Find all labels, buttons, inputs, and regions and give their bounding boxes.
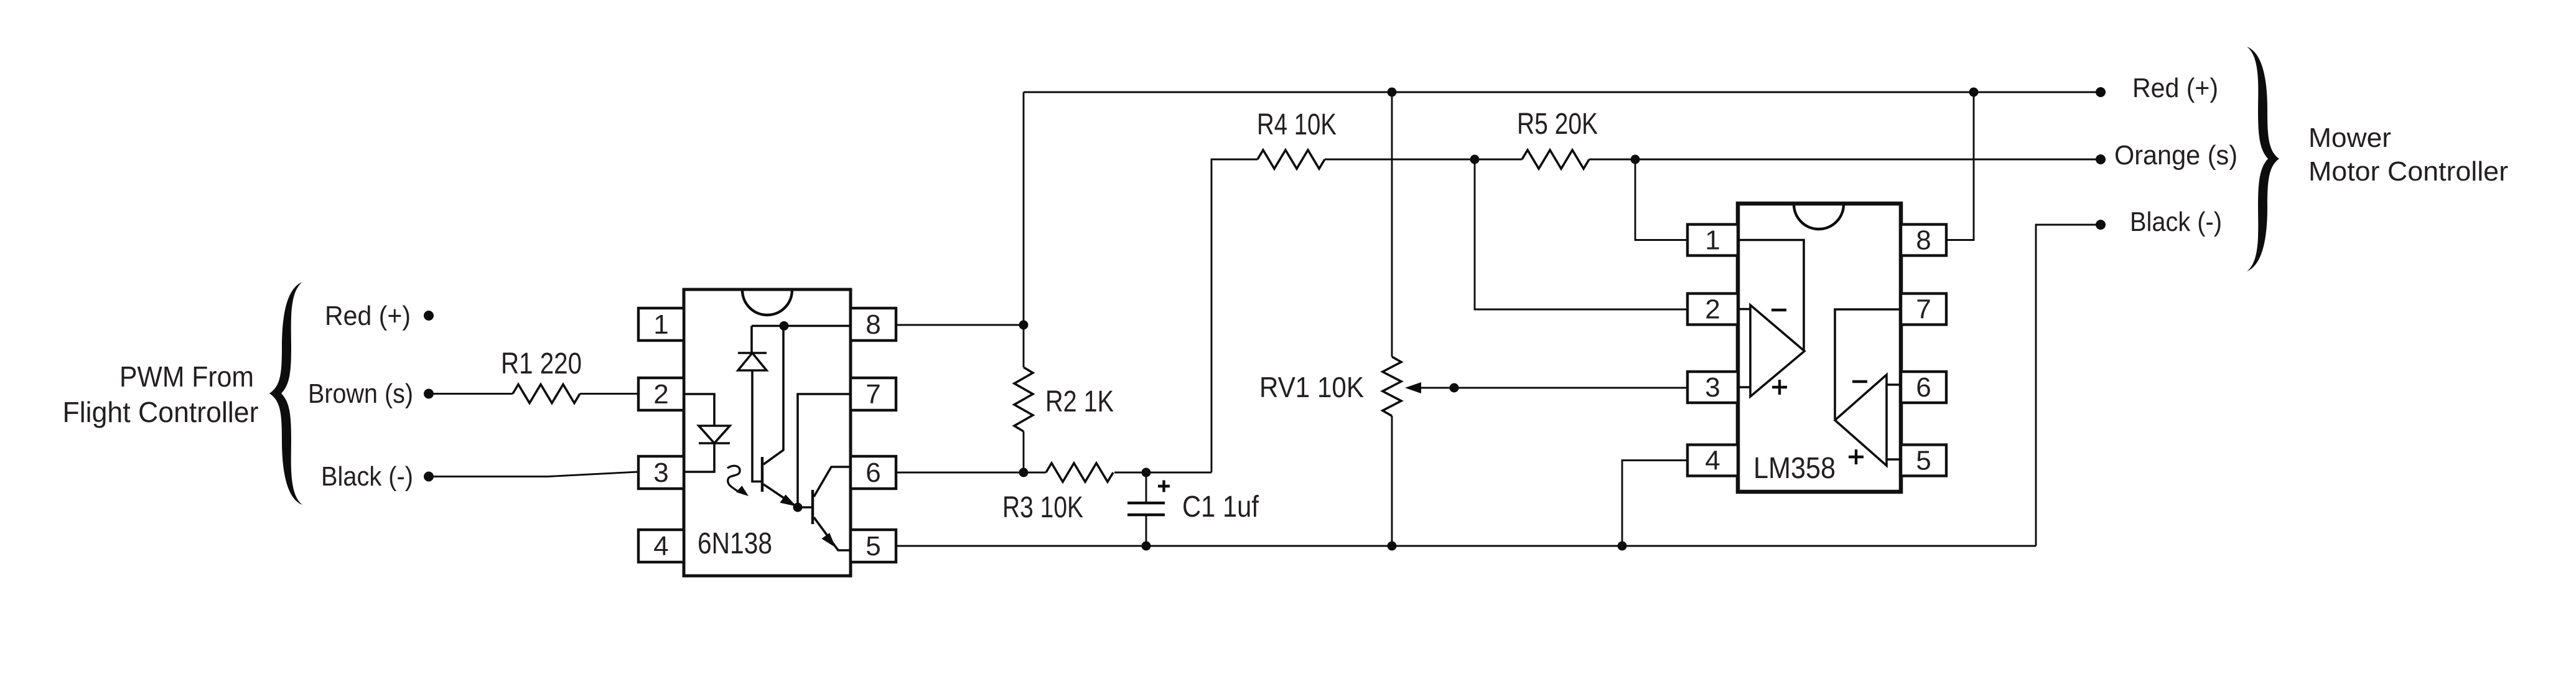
pin 4 U1 <box>638 530 684 562</box>
wire Brown to R1 <box>434 393 513 395</box>
pin 7 U1 <box>851 378 896 410</box>
label RV1 10K <box>1259 371 1364 403</box>
transistor Q2 base bar <box>811 490 814 524</box>
node R5 right junction <box>1631 155 1640 164</box>
svg-text:Red (+): Red (+) <box>2132 73 2218 103</box>
svg-text:8: 8 <box>1916 225 1931 256</box>
node Black left terminal <box>424 472 434 482</box>
op-amp U2B plus <box>1849 449 1864 464</box>
pin 2 U1 <box>638 378 684 410</box>
node Red left terminal <box>424 311 434 321</box>
label Black (-) right <box>2130 207 2222 237</box>
wire pin 8 U1 to R2 top node <box>896 324 1024 326</box>
wire pin 8 U2 to top rail <box>1946 92 1974 240</box>
wire R4 to R5 node <box>1325 159 1522 161</box>
pin 6 U1 <box>851 456 896 489</box>
wire R5 left node to pin 2 U2 <box>1475 159 1687 309</box>
pin 6 U2 <box>1901 372 1946 403</box>
svg-text:RV1 10K: RV1 10K <box>1259 371 1364 403</box>
transistor Q1 collector <box>763 326 783 465</box>
node RV1 top junction <box>1388 88 1397 97</box>
pin 5 U2 <box>1901 445 1946 476</box>
pin 1 U2 <box>1687 225 1738 256</box>
label PWM From Flight Controller <box>63 360 259 428</box>
wire LED anode from pin 2 <box>684 394 714 426</box>
wire node to Q2 base <box>798 506 811 509</box>
wire ground rail <box>896 545 2036 547</box>
transistor Q1 emitter <box>763 484 798 507</box>
wire top rail <box>1024 92 2097 93</box>
node Black right terminal <box>2096 220 2106 230</box>
transistor Q1 base bar <box>761 457 763 492</box>
pin 3 U2 <box>1687 372 1738 403</box>
IC U2 LM358 body <box>1738 204 1901 492</box>
svg-text:R3 10K: R3 10K <box>1002 491 1083 524</box>
svg-text:Black (-): Black (-) <box>321 461 413 492</box>
svg-text:Flight Controller: Flight Controller <box>63 396 259 428</box>
svg-text:2: 2 <box>653 379 668 410</box>
op-amp U2B <box>1835 375 1887 466</box>
label Brown (s) <box>308 378 413 409</box>
op-amp U2A output to pin 1 <box>1738 240 1804 350</box>
label Black (-) left <box>321 461 413 492</box>
svg-text:4: 4 <box>1705 446 1720 476</box>
wire R5 to Orange terminal <box>1589 159 2097 161</box>
light arrow <box>727 466 749 496</box>
node C1 bottom junction <box>1142 542 1151 551</box>
svg-text:Red (+): Red (+) <box>325 301 411 331</box>
svg-text:3: 3 <box>1705 372 1720 403</box>
node photodiode-collector junction <box>780 321 789 331</box>
op-amp U2A <box>1750 305 1804 397</box>
wire pin 3 stub <box>1738 386 1750 388</box>
resistor R1 <box>513 385 580 403</box>
brace Mower output <box>2247 47 2279 271</box>
IC U1 6N138 body <box>684 289 851 576</box>
wire Black to pin 3 <box>434 472 638 477</box>
wire internal VCC rail to pin 8 <box>752 325 851 327</box>
wire ground riser to Black right <box>2036 225 2097 546</box>
potentiometer RV1 <box>1383 92 1401 546</box>
svg-text:5: 5 <box>866 531 880 561</box>
op-amp U2A plus <box>1772 380 1787 395</box>
svg-text:7: 7 <box>1916 294 1931 325</box>
svg-text:PWM From: PWM From <box>119 360 254 393</box>
label R4 10K <box>1257 108 1337 141</box>
label LM358 <box>1753 452 1836 485</box>
resistor R4 <box>1258 150 1325 169</box>
pin 8 U1 <box>851 308 896 340</box>
resistor R3 <box>1046 463 1113 482</box>
label R2 1K <box>1045 385 1114 418</box>
IC U1 notch <box>742 290 792 315</box>
node R2 top junction <box>1019 321 1029 330</box>
pin 3 U1 <box>638 456 684 489</box>
label Red (+) right <box>2132 73 2218 103</box>
svg-text:8: 8 <box>866 309 880 340</box>
svg-text:Orange (s): Orange (s) <box>2114 140 2238 171</box>
node Q1 emitter Q2 base <box>793 503 803 512</box>
svg-text:R4 10K: R4 10K <box>1257 108 1337 141</box>
node Red right terminal <box>2096 87 2106 97</box>
wire pin 5 stub <box>1887 458 1901 461</box>
svg-text:C1 1uf: C1 1uf <box>1182 491 1259 524</box>
node R5 left junction <box>1470 155 1480 164</box>
wire riser to R4 <box>1211 159 1258 472</box>
wire pin 2 stub <box>1738 308 1750 311</box>
svg-text:7: 7 <box>866 379 880 410</box>
diode D2 photodiode <box>738 326 767 482</box>
node ground RV1 junction <box>1388 542 1397 551</box>
transistor Q2 collector to pin 6 <box>814 467 851 497</box>
pin 1 U1 <box>638 308 684 340</box>
node C1 top junction <box>1142 468 1151 477</box>
svg-text:4: 4 <box>653 531 668 561</box>
op-amp U2B output to pin 7 <box>1835 309 1901 419</box>
resistor R5 <box>1522 150 1589 169</box>
svg-text:6N138: 6N138 <box>698 527 772 560</box>
wire pin 6 stub <box>1887 383 1901 386</box>
node RV1 wiper junction <box>1450 383 1459 393</box>
svg-text:2: 2 <box>1705 294 1720 325</box>
svg-text:Black (-): Black (-) <box>2130 207 2222 237</box>
brace PWM input <box>269 282 302 505</box>
wire pin 4 U2 to ground rail <box>1622 461 1687 547</box>
op-amp U2A minus <box>1771 309 1786 311</box>
svg-text:R1 220: R1 220 <box>501 347 582 380</box>
node top rail pin8 junction <box>1969 88 1979 97</box>
IC U2 notch <box>1794 204 1844 229</box>
svg-text:R2 1K: R2 1K <box>1045 385 1114 418</box>
transistor Q2 emitter to pin 5 <box>814 517 851 550</box>
op-amp U2B minus <box>1852 380 1867 383</box>
wire top rail riser <box>1023 92 1025 325</box>
label R5 20K <box>1517 108 1598 141</box>
node Orange terminal <box>2096 154 2106 164</box>
svg-text:6: 6 <box>1916 372 1931 403</box>
diode D1 input LED <box>699 426 730 443</box>
svg-text:R5 20K: R5 20K <box>1517 108 1598 141</box>
pin 8 U2 <box>1901 225 1946 256</box>
svg-text:5: 5 <box>1916 446 1931 476</box>
label R3 10K <box>1002 491 1083 524</box>
wire R3 to C1 node <box>1114 472 1211 474</box>
node Brown terminal <box>424 389 434 399</box>
pin 2 U2 <box>1687 294 1738 325</box>
pin 5 U1 <box>851 530 896 562</box>
resistor R2 <box>1014 325 1033 472</box>
wire pin 7 to Q2 base node <box>798 394 851 507</box>
svg-text:Brown (s): Brown (s) <box>308 378 413 409</box>
node R2 bottom junction <box>1019 468 1029 477</box>
label Orange (s) <box>2114 140 2238 171</box>
node ground rail pin4 junction <box>1618 542 1627 551</box>
wire R1 to pin 2 <box>580 393 638 395</box>
pin 7 U2 <box>1901 294 1946 325</box>
wire LED cathode to pin 3 <box>684 443 714 472</box>
label 6N138 <box>698 527 772 560</box>
C1 plus sign <box>1158 481 1170 492</box>
label Red (+) left <box>325 301 411 331</box>
svg-text:Mower: Mower <box>2308 123 2391 153</box>
svg-text:3: 3 <box>653 458 668 488</box>
wire R5 right node to pin 1 U2 <box>1635 159 1687 240</box>
label Mower Motor Controller <box>2308 123 2508 187</box>
svg-text:6: 6 <box>866 458 880 488</box>
svg-text:1: 1 <box>653 309 668 340</box>
svg-text:Motor Controller: Motor Controller <box>2308 156 2508 187</box>
label R1 220 <box>501 347 582 380</box>
label C1 1uf <box>1182 491 1259 524</box>
svg-text:LM358: LM358 <box>1753 452 1836 485</box>
RV1 wiper arrow <box>1405 382 1687 393</box>
wire pin 6 U1 to R3 <box>896 472 1046 474</box>
capacitor C1 <box>1127 472 1165 546</box>
pin 4 U2 <box>1687 445 1738 476</box>
svg-text:1: 1 <box>1705 225 1720 256</box>
